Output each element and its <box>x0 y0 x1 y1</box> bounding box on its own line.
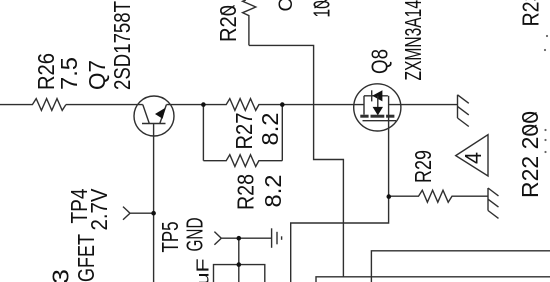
resistor R27 <box>203 99 282 111</box>
svg-text:4: 4 <box>460 152 486 164</box>
node TP4 junction dot <box>151 211 156 216</box>
svg-text:Q7: Q7 <box>84 60 110 90</box>
node TP5 junction dot <box>237 236 242 241</box>
wire Q7 emitter to node A <box>166 104 203 106</box>
box upper right (cut) <box>371 251 550 282</box>
wire from R20 stepping down <box>249 45 344 276</box>
wire node B to Q8 drain <box>282 104 364 106</box>
svg-text:Q8: Q8 <box>367 49 393 74</box>
svg-text:7.5: 7.5 <box>56 57 82 90</box>
resistor R26 <box>0 99 66 111</box>
svg-text:TP5: TP5 <box>157 222 183 253</box>
wire TP5 node down to capacitor node <box>238 238 240 282</box>
svg-text:R27: R27 <box>231 113 257 150</box>
transistor Q8 <box>354 84 401 131</box>
test point TP4 probe <box>123 207 154 220</box>
svg-text:R23: R23 <box>518 0 544 27</box>
ground chassis symbol lower right <box>488 188 499 218</box>
slashes on zeros of R22 200 <box>524 125 537 134</box>
svg-text:GND: GND <box>182 218 208 252</box>
ground earth symbol <box>239 228 282 248</box>
wire Q8 right terminal to ground <box>389 104 458 106</box>
slash on zero of R20 <box>222 6 235 15</box>
node A junction dot <box>201 102 206 107</box>
stray dots right edge <box>544 35 548 153</box>
svg-text:2SD1758T: 2SD1758T <box>109 1 135 90</box>
ground chassis symbol upper right <box>458 95 469 127</box>
svg-text:R28: R28 <box>233 174 259 210</box>
svg-text:C: C <box>276 0 297 12</box>
svg-text:R22 200: R22 200 <box>517 111 543 198</box>
wire Q7 base lead down <box>153 124 155 282</box>
slash on zero of 100 <box>315 0 329 8</box>
svg-text:2.7V: 2.7V <box>86 188 112 231</box>
capacitor box (cut at bottom) <box>214 265 265 282</box>
svg-text:8.2: 8.2 <box>257 113 283 146</box>
test point TP5 probe <box>214 232 238 245</box>
wire main left segment to Q7 collector <box>66 104 143 106</box>
resistor R20 (cut at top) <box>243 0 256 45</box>
svg-text:uF: uF <box>193 258 213 282</box>
wire Q8 source lead down to node C <box>388 96 390 197</box>
wire node C down and left to bottom edge <box>291 197 389 282</box>
wire R27-R28 parallel loop right side <box>281 105 283 161</box>
svg-text:3: 3 <box>48 269 74 282</box>
node C junction dot <box>387 194 392 199</box>
port connector triangle 4 <box>456 135 488 176</box>
node capacitor junction dot <box>237 262 242 267</box>
svg-text:R29: R29 <box>410 150 436 183</box>
svg-text:ZXMN3A14F: ZXMN3A14F <box>400 0 426 81</box>
transistor Q7 <box>134 96 174 136</box>
node B junction dot <box>280 102 285 107</box>
resistor R29 <box>389 190 488 202</box>
svg-text:IGFET: IGFET <box>73 234 99 282</box>
resistor R28 <box>203 155 282 167</box>
box lower right (cut) <box>316 277 550 282</box>
wire R27-R28 parallel loop left side <box>202 105 204 161</box>
svg-text:8.2: 8.2 <box>260 175 286 208</box>
